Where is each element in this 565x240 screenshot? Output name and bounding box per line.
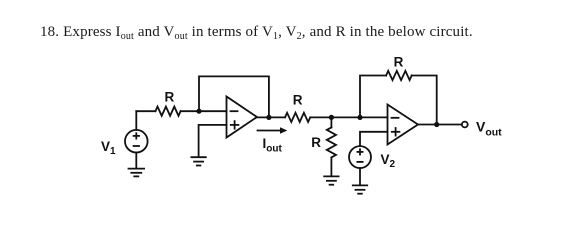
svg-text:Vout: Vout bbox=[476, 118, 502, 138]
svg-text:Iout: Iout bbox=[263, 136, 283, 155]
wire V1 to ground bbox=[135, 153, 137, 169]
wire U2 output bbox=[418, 124, 462, 126]
wire U1 plus input bbox=[199, 125, 227, 157]
arrow Iout bbox=[258, 127, 288, 133]
junction node E bbox=[434, 122, 439, 127]
junction node D bbox=[357, 115, 362, 120]
svg-text:V2: V2 bbox=[381, 152, 396, 170]
source V1 bbox=[125, 130, 148, 153]
source V2 bbox=[349, 146, 371, 168]
wire bbox=[181, 110, 227, 112]
wire U1 output bbox=[257, 116, 285, 118]
junction node B bbox=[266, 115, 271, 120]
resistor R1 bbox=[155, 107, 180, 116]
wire bbox=[136, 110, 155, 112]
wire bbox=[135, 111, 137, 130]
ground bbox=[353, 185, 367, 193]
wire R3 to ground bbox=[330, 157, 332, 176]
wire bbox=[310, 116, 387, 118]
terminal Vout bbox=[462, 122, 468, 128]
wire U2 plus input bbox=[360, 132, 388, 146]
wire feedback U2 left bbox=[360, 76, 386, 118]
op-amp U2 bbox=[388, 105, 419, 145]
svg-text:R: R bbox=[293, 92, 303, 107]
ground bbox=[324, 176, 338, 184]
svg-text:R: R bbox=[311, 135, 321, 150]
ground bbox=[191, 157, 205, 165]
svg-text:V1: V1 bbox=[101, 139, 116, 157]
svg-text:R: R bbox=[394, 54, 404, 69]
svg-text:R: R bbox=[165, 90, 175, 105]
ground bbox=[129, 169, 145, 177]
wire feedback U2 right bbox=[412, 76, 437, 125]
junction node A bbox=[196, 109, 201, 114]
resistor R2 bbox=[285, 113, 310, 122]
wire bbox=[330, 117, 332, 127]
wire V2 to ground bbox=[359, 168, 361, 185]
junction node C bbox=[329, 115, 334, 120]
wire feedback U1 bbox=[199, 76, 269, 117]
resistor R4 bbox=[386, 71, 412, 80]
op-amp U1 bbox=[227, 97, 258, 138]
resistor R3 bbox=[327, 127, 336, 157]
